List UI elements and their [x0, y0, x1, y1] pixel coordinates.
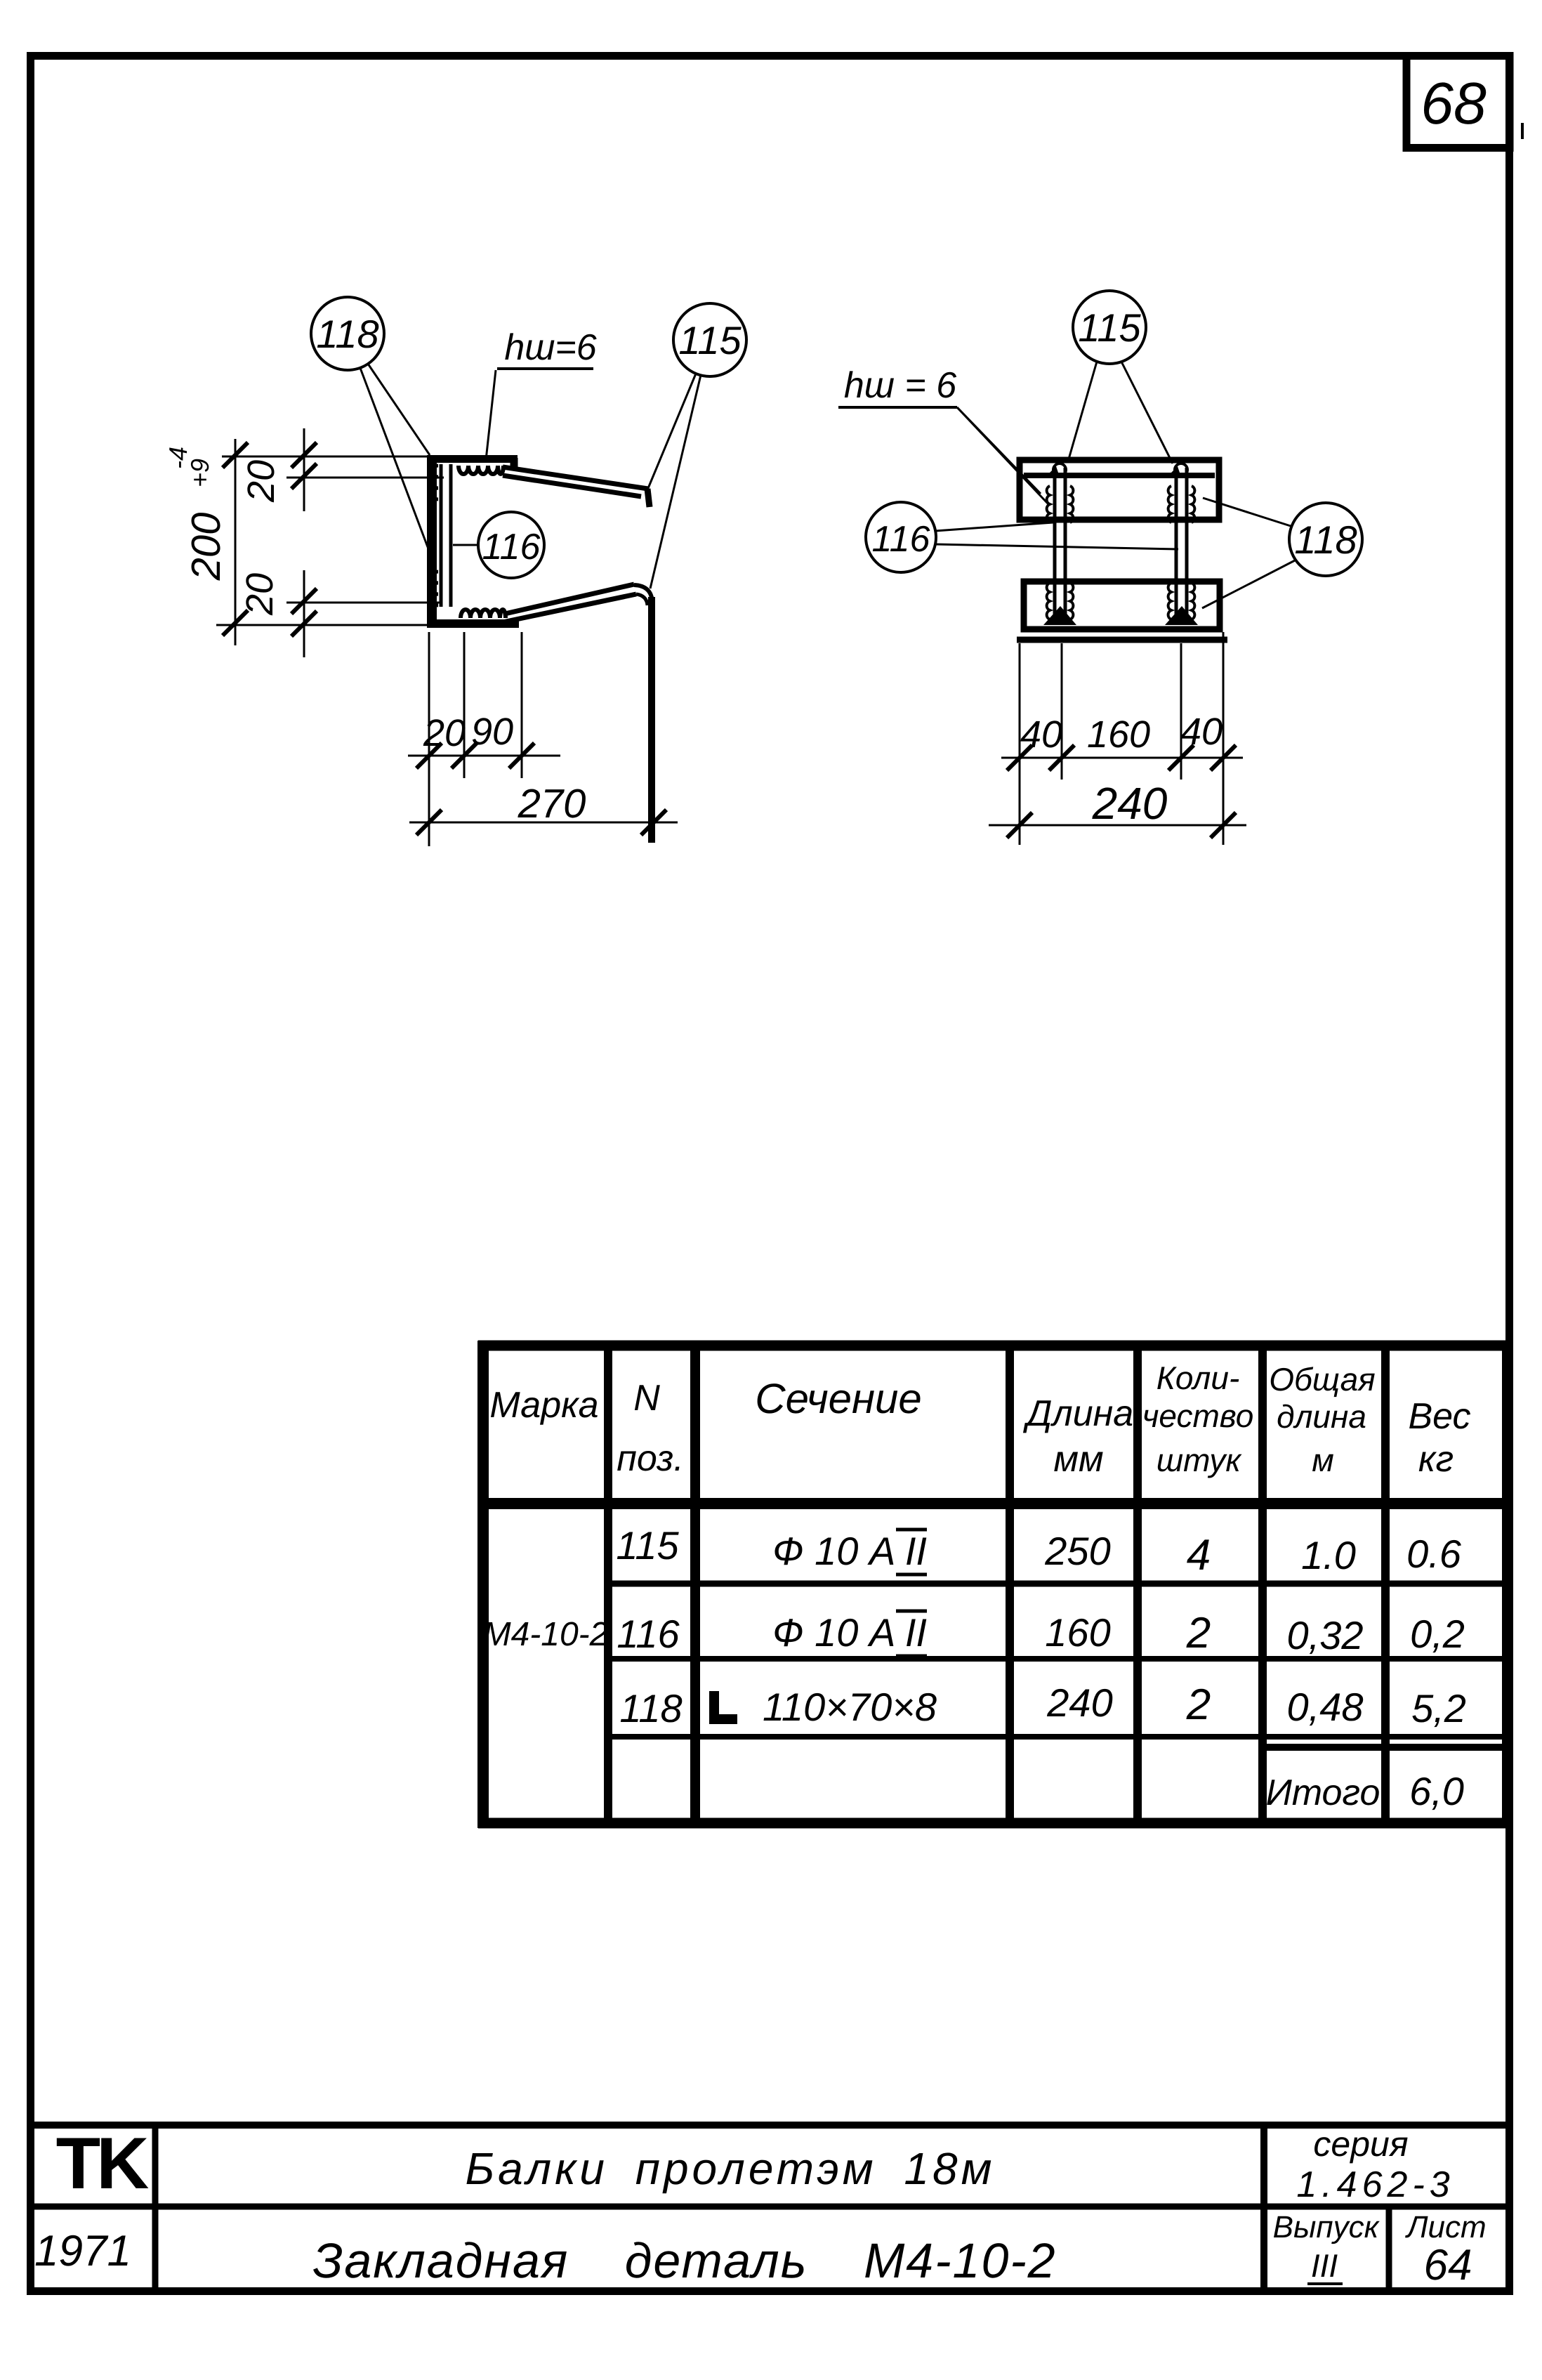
svg-text:III: III: [1311, 2247, 1338, 2284]
bar 116 (section): [441, 464, 451, 607]
svg-text:2: 2: [1186, 1609, 1211, 1657]
title block: sheet: [1404, 2210, 1486, 2289]
dimension 20 bottom (left): [239, 570, 442, 657]
svg-text:2: 2: [1186, 1681, 1211, 1729]
svg-text:68: 68: [1421, 70, 1487, 136]
leaders 115 (right): [1068, 362, 1173, 463]
callout circle 115 (right): [1073, 291, 1146, 364]
welds of bars bottom (front view): [1047, 583, 1195, 619]
callout circle 116 (right): [866, 502, 936, 572]
svg-text:hш=6: hш=6: [504, 327, 596, 368]
bar 116 right (front view): [1176, 468, 1187, 625]
label hw=6 (left): [486, 327, 597, 460]
svg-text:20: 20: [423, 712, 466, 754]
svg-text:Итого: Итого: [1266, 1773, 1380, 1813]
title block: series: [1296, 2124, 1454, 2205]
angle 118 web (section): [427, 455, 437, 626]
angle 118 bottom (front view): [1017, 581, 1227, 640]
table header texts: [489, 1360, 1470, 1480]
svg-text:Ф 10 A II: Ф 10 A II: [772, 1610, 927, 1655]
svg-text:6,0: 6,0: [1409, 1769, 1464, 1813]
svg-text:длина: длина: [1277, 1398, 1366, 1435]
svg-text:118: 118: [316, 312, 378, 356]
extension lines (right view dims): [1020, 632, 1223, 845]
svg-text:160: 160: [1045, 1610, 1110, 1655]
svg-text:115: 115: [678, 318, 742, 362]
bar 116 left (front view): [1055, 468, 1065, 625]
svg-text:Вес: Вес: [1408, 1396, 1470, 1437]
leaders 118 (right): [1202, 498, 1296, 608]
angle 118 top flange (section): [427, 455, 518, 468]
weld row on bottom flange: [461, 610, 506, 618]
svg-text:кг: кг: [1418, 1439, 1454, 1480]
dimension 200 with tolerance (left): [164, 439, 430, 645]
table row 1: pos 115: [616, 1523, 1461, 1579]
svg-text:0.6: 0.6: [1406, 1532, 1462, 1576]
svg-text:Выпуск: Выпуск: [1273, 2210, 1380, 2244]
extension lines bottom (left): [429, 632, 522, 846]
anchor bar 115 bottom (left view): [503, 584, 652, 843]
svg-text:Закладная деталь М4-10-2: Закладная деталь М4-10-2: [312, 2233, 1056, 2288]
svg-text:40: 40: [1020, 714, 1062, 756]
svg-text:0,2: 0,2: [1410, 1612, 1465, 1656]
svg-text:160: 160: [1087, 714, 1150, 756]
svg-text:20: 20: [240, 460, 282, 503]
svg-text:мм: мм: [1053, 1439, 1103, 1480]
callout circle 118 (right): [1289, 503, 1362, 576]
label hw=6 (right): [838, 365, 1049, 505]
svg-text:серия: серия: [1313, 2124, 1408, 2164]
svg-text:20: 20: [239, 573, 281, 616]
svg-text:штук: штук: [1156, 1442, 1242, 1478]
table totals row: [1266, 1769, 1464, 1813]
title block: issue: [1273, 2210, 1380, 2284]
table row 2: pos 116: [483, 1609, 1465, 1657]
svg-text:115: 115: [1078, 305, 1141, 350]
svg-text:Длина: Длина: [1023, 1393, 1133, 1434]
dimension 270 (left bottom): [409, 781, 678, 835]
angle 118 bottom flange (section): [427, 619, 519, 628]
dimension 20 top (left): [240, 428, 444, 511]
sheet number box 68: [1406, 56, 1522, 148]
anchor 115 hooks on top angle: [1048, 463, 1187, 476]
svg-text:0,32: 0,32: [1287, 1613, 1364, 1657]
leaders 116 (right): [935, 522, 1178, 549]
svg-text:поз.: поз.: [617, 1438, 684, 1479]
table grid: [478, 1341, 1512, 1828]
svg-text:М4-10-2: М4-10-2: [483, 1616, 609, 1653]
svg-text:118: 118: [619, 1686, 682, 1730]
dimension 240 (right): [989, 778, 1246, 838]
callout circle 115 (left): [673, 303, 746, 376]
svg-text:hш = 6: hш = 6: [844, 365, 956, 406]
svg-text:270: 270: [518, 781, 586, 827]
svg-text:1.462-3: 1.462-3: [1296, 2164, 1454, 2205]
svg-text:116: 116: [617, 1612, 680, 1656]
svg-text:116: 116: [872, 519, 930, 560]
svg-text:40: 40: [1180, 711, 1223, 753]
weld of bar 116 top (left view): [433, 466, 438, 499]
title block grid: [30, 2122, 1510, 2291]
dimension 40 160 40 (right): [1001, 711, 1243, 770]
svg-text:90: 90: [471, 711, 513, 753]
svg-text:-4: -4: [164, 447, 192, 469]
svg-text:м: м: [1312, 1442, 1334, 1478]
svg-text:5,2: 5,2: [1411, 1686, 1466, 1730]
svg-text:Марка: Марка: [489, 1385, 598, 1426]
svg-text:240: 240: [1046, 1681, 1112, 1725]
svg-text:250: 250: [1044, 1529, 1110, 1573]
svg-text:1.0: 1.0: [1301, 1533, 1356, 1577]
svg-text:Балки пролетэм 18м: Балки пролетэм 18м: [466, 2143, 996, 2194]
svg-text:64: 64: [1424, 2241, 1472, 2289]
weld row on top flange: [459, 466, 503, 474]
svg-text:116: 116: [482, 527, 541, 567]
welds of bars top (front view): [1047, 486, 1195, 522]
svg-text:Лист: Лист: [1404, 2210, 1486, 2244]
anchor bar 115 top (left view): [503, 467, 650, 507]
svg-text:TK: TK: [56, 2123, 150, 2204]
callout circle 116 (left): [478, 512, 544, 578]
svg-text:118: 118: [1294, 518, 1357, 562]
svg-text:N: N: [633, 1378, 660, 1419]
svg-text:1971: 1971: [34, 2227, 131, 2275]
leaders 118 (left): [360, 364, 433, 562]
svg-text:115: 115: [616, 1523, 679, 1567]
svg-text:240: 240: [1092, 778, 1168, 829]
weld of bar 116 bottom (left view): [433, 572, 438, 605]
weld fillets at bar bottoms (front view): [1043, 606, 1198, 625]
dimension 20 90 (left bottom): [408, 711, 560, 768]
svg-text:4: 4: [1187, 1531, 1211, 1579]
callout circle 118 (left): [311, 297, 384, 370]
leader 116 (left): [453, 544, 478, 546]
svg-text:200: 200: [183, 513, 229, 581]
svg-text:0,48: 0,48: [1287, 1685, 1364, 1729]
svg-text:110×70×8: 110×70×8: [763, 1685, 937, 1729]
table row 3: pos 118: [619, 1681, 1466, 1730]
svg-text:чество: чество: [1142, 1398, 1254, 1434]
angle 118 top (front view): [1020, 460, 1219, 520]
svg-text:Сечение: Сечение: [755, 1375, 922, 1422]
svg-text:Коли-: Коли-: [1156, 1360, 1240, 1396]
svg-text:Общая: Общая: [1269, 1361, 1375, 1398]
leaders 115 (left): [647, 374, 701, 589]
svg-text:Ф 10 A II: Ф 10 A II: [772, 1529, 927, 1573]
